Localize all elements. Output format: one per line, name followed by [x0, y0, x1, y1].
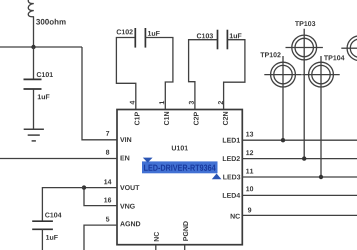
capacitor C104: [32, 221, 53, 229]
test point TP103 label: [295, 21, 315, 26]
pin C1P name: [135, 112, 140, 125]
pin VOUT name: [120, 185, 139, 190]
pin AGND name: [120, 221, 140, 226]
pin 5 number: [106, 217, 110, 222]
junction dot TP102-LED1: [281, 138, 285, 142]
wire C104 to bottom edge: [41, 229, 43, 250]
resistor R1 value 300ohm: [36, 19, 66, 25]
junction dot TP103-LED2: [302, 156, 306, 160]
wire LED2 to right edge: [242, 158, 357, 160]
wire top rail to left edge: [0, 46, 82, 48]
capacitor C103: [218, 30, 228, 50]
test point TP102 label: [260, 52, 280, 57]
capacitor C104 ref label: [45, 213, 61, 218]
pin 12 number: [246, 150, 253, 155]
pin 2 number: [218, 101, 223, 104]
pin EN name: [121, 156, 130, 161]
pin VIN name: [120, 137, 131, 142]
wire junction down to C101: [33, 47, 35, 79]
pin VNG name: [120, 204, 135, 209]
pin 14 number: [104, 179, 111, 184]
net label LED-DRIVER-RT9364 text: [144, 165, 216, 171]
wire C102 to pin 4: [116, 38, 135, 110]
capacitor C102: [135, 28, 145, 48]
wire AGND to bottom edge: [84, 225, 117, 250]
capacitor C102 ref label: [117, 29, 133, 34]
junction dot VIN rail: [31, 45, 35, 49]
test point TP104 label: [324, 55, 345, 60]
selection handle triangle up: [212, 174, 222, 180]
pin LED4 name: [223, 193, 240, 198]
net label LED-DRIVER-RT9364 highlight: [142, 161, 218, 173]
test point TP102: [264, 56, 301, 140]
pin 13 number: [246, 132, 253, 137]
test point TP103: [286, 29, 323, 159]
op-amp U101 ref label: [172, 146, 188, 151]
capacitor C101: [24, 79, 42, 89]
pin LED3 name: [223, 175, 240, 180]
selection handle triangle down: [143, 158, 153, 163]
pin 11 number: [246, 169, 253, 174]
pin C1N name: [164, 112, 169, 125]
wire NC to right edge: [242, 214, 357, 216]
ground GND: [24, 129, 44, 141]
pin 8 number: [106, 150, 109, 155]
wire EN to left edge: [0, 158, 117, 160]
wire LED4 to right edge: [242, 194, 357, 196]
pin 10 number: [246, 186, 253, 191]
wire C103 to pin 2: [224, 40, 245, 110]
wire resistor to junction: [33, 16, 35, 47]
op-amp U101 LED driver box: [117, 110, 242, 245]
wire C103 to pin 3: [189, 40, 218, 110]
capacitor C102 value 1uF: [148, 31, 160, 36]
pin 1 number: [159, 101, 164, 104]
pin 4 number: [130, 101, 135, 105]
junction dot VOUT: [82, 185, 86, 189]
capacitor C103 value 1uF: [230, 33, 242, 38]
pin 3 number: [189, 101, 194, 104]
pin LED2 name: [223, 156, 240, 161]
pin 9 number: [248, 208, 251, 213]
wire VOUT pin: [84, 187, 117, 189]
test point TP104: [302, 56, 339, 177]
capacitor C101 ref label: [37, 72, 53, 77]
wire C101 to ground: [33, 89, 35, 129]
pin NC right name: [231, 214, 240, 219]
resistor R1 (300ohm): [28, 0, 34, 17]
pin LED1 name: [223, 138, 240, 143]
pin PGND name: [183, 221, 188, 240]
pin PGND stub: [184, 245, 186, 250]
junction dot TP104-LED3: [319, 175, 323, 179]
pin C2N name: [223, 112, 228, 125]
capacitor C104 value 1uF: [46, 235, 58, 240]
wire rail to VIN pin: [82, 47, 117, 140]
pin NC bottom stub: [155, 245, 157, 250]
capacitor C101 value 1uF: [38, 94, 50, 99]
capacitor C103 ref label: [197, 33, 213, 38]
pin 7 number: [106, 131, 109, 136]
wire VOUT to C104: [42, 188, 84, 222]
wire LED3 to right edge: [242, 176, 357, 178]
wire VNG to VOUT: [84, 188, 117, 206]
wire C102 to pin 1: [145, 38, 173, 110]
test point TP105 (cut off at edge): [341, 36, 357, 61]
wire LED1 to right edge: [242, 139, 357, 141]
pin 16 number: [104, 198, 111, 203]
pin C2P name: [194, 112, 199, 125]
pin NC bottom name: [154, 232, 159, 241]
